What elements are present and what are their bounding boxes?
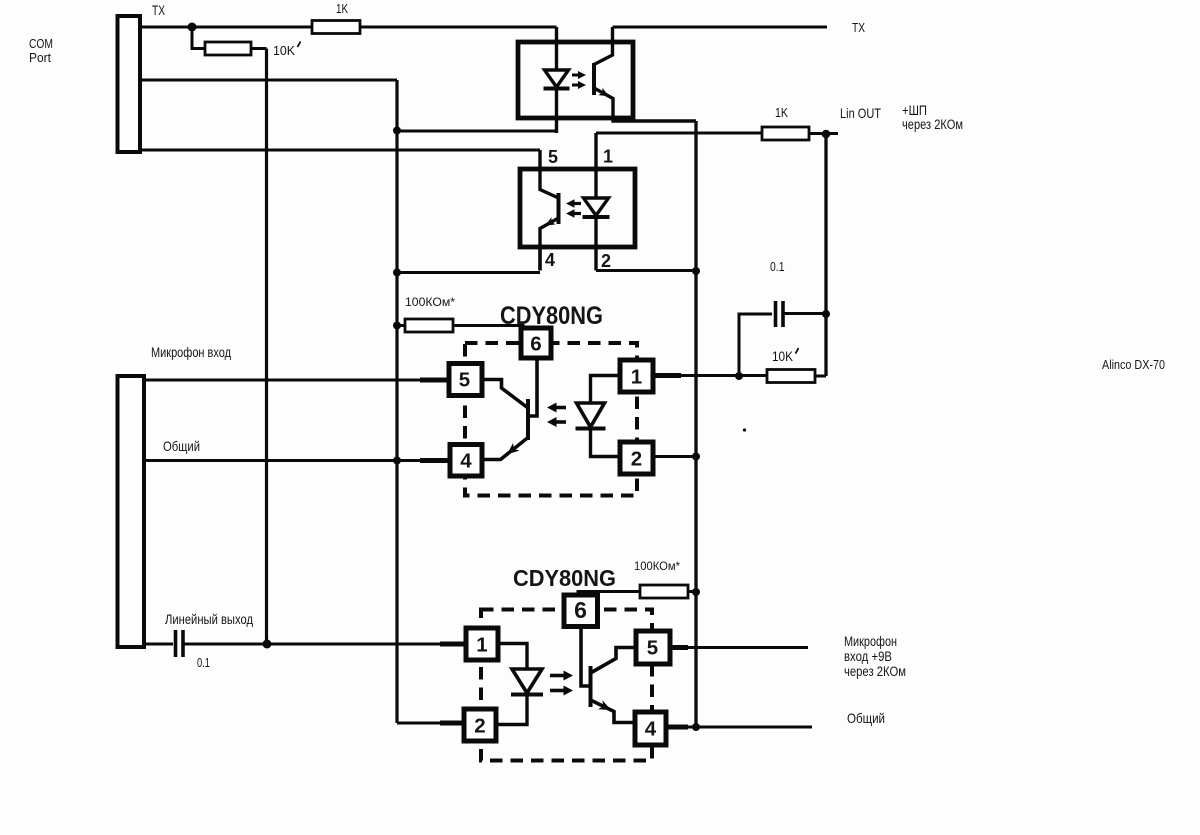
svg-text:через 2КОм: через 2КОм xyxy=(844,664,906,679)
svg-text:10K: 10K xyxy=(772,349,793,364)
svg-text:2: 2 xyxy=(474,715,485,738)
svg-text:Микрофон вход: Микрофон вход xyxy=(151,344,231,360)
svg-text:Lin OUT: Lin OUT xyxy=(840,106,881,121)
svg-text:+ШП: +ШП xyxy=(902,103,927,118)
svg-text:4: 4 xyxy=(645,718,657,741)
svg-text:1: 1 xyxy=(631,366,642,389)
svg-text:1K: 1K xyxy=(336,1,348,16)
svg-text:1K: 1K xyxy=(775,105,788,120)
svg-text:5: 5 xyxy=(647,637,658,660)
svg-text:6: 6 xyxy=(574,597,587,623)
svg-text:Port: Port xyxy=(29,50,51,65)
svg-text:CDY80NG: CDY80NG xyxy=(500,302,603,330)
svg-text:через 2КОм: через 2КОм xyxy=(902,117,963,132)
svg-text:CDY80NG: CDY80NG xyxy=(513,565,616,591)
svg-text:4: 4 xyxy=(460,450,472,473)
svg-text:100КОм*: 100КОм* xyxy=(634,561,681,573)
svg-text:10K: 10K xyxy=(273,43,295,58)
svg-text:100КОм*: 100КОм* xyxy=(405,297,456,309)
svg-text:COM: COM xyxy=(29,36,53,51)
svg-text:1: 1 xyxy=(603,147,613,167)
svg-text:2: 2 xyxy=(631,448,642,471)
svg-text:Общий: Общий xyxy=(847,710,885,726)
svg-text:Alinco DX-70: Alinco DX-70 xyxy=(1102,357,1165,372)
svg-text:Микрофон: Микрофон xyxy=(844,634,897,649)
svg-text:0.1: 0.1 xyxy=(770,259,785,274)
svg-text:1: 1 xyxy=(476,634,487,657)
svg-text:5: 5 xyxy=(548,147,558,167)
svg-text:Линейный выход: Линейный выход xyxy=(165,611,253,627)
svg-text:2: 2 xyxy=(601,251,611,271)
svg-text:5: 5 xyxy=(459,369,470,392)
svg-text:TX: TX xyxy=(152,3,165,18)
svg-text:вход +9В: вход +9В xyxy=(844,649,892,664)
svg-text:4: 4 xyxy=(545,250,555,270)
svg-text:TX: TX xyxy=(852,20,865,35)
svg-text:0.1: 0.1 xyxy=(197,656,210,670)
svg-text:Общий: Общий xyxy=(163,438,200,454)
svg-text:6: 6 xyxy=(530,333,541,356)
